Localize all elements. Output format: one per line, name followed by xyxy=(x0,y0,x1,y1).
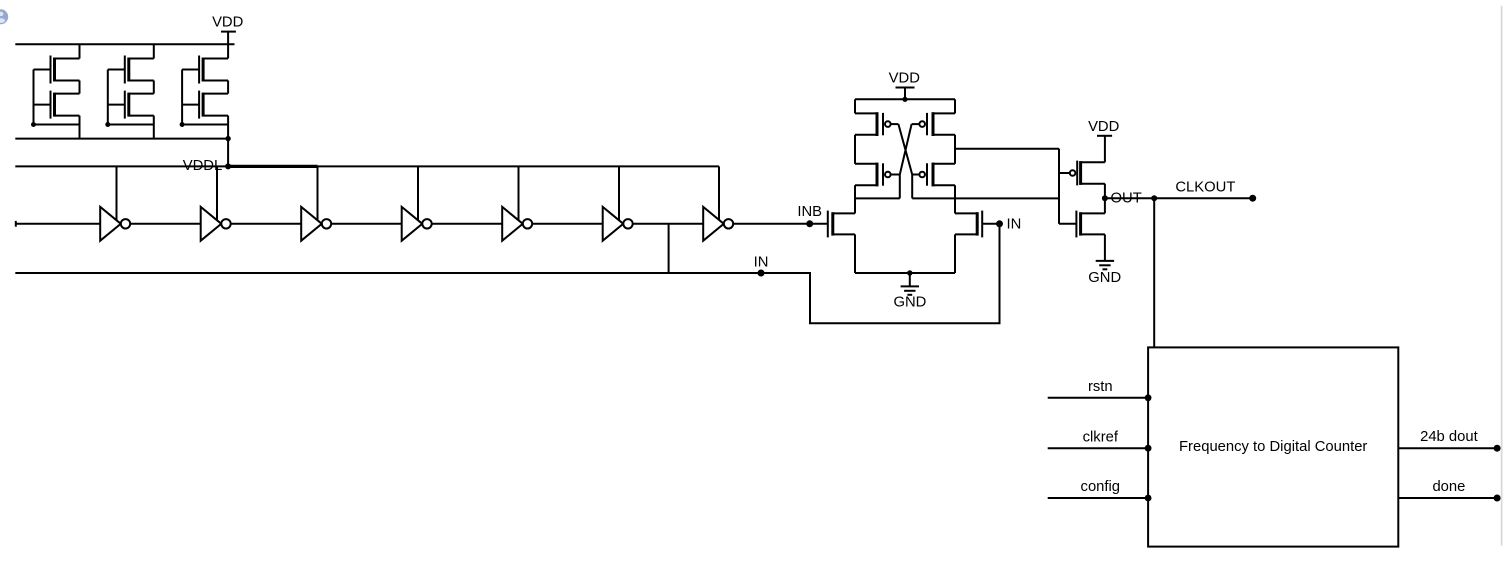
svg-text:VDD: VDD xyxy=(212,15,243,31)
svg-text:clkref: clkref xyxy=(1083,429,1119,445)
svg-text:rstn: rstn xyxy=(1088,379,1113,395)
svg-text:IN: IN xyxy=(1007,217,1022,233)
svg-text:VDD: VDD xyxy=(1088,119,1119,135)
svg-text:done: done xyxy=(1432,479,1465,495)
svg-text:IN: IN xyxy=(754,254,769,270)
svg-text:24b dout: 24b dout xyxy=(1420,429,1478,445)
svg-text:config: config xyxy=(1081,479,1121,495)
svg-text:INB: INB xyxy=(797,204,822,220)
svg-text:OUT: OUT xyxy=(1111,190,1142,206)
svg-text:GND: GND xyxy=(1088,270,1121,286)
svg-text:VDDL: VDDL xyxy=(183,158,222,174)
svg-text:GND: GND xyxy=(893,295,926,311)
svg-text:VDD: VDD xyxy=(889,70,920,86)
svg-text:Frequency to Digital Counter: Frequency to Digital Counter xyxy=(1179,439,1367,455)
svg-text:CLKOUT: CLKOUT xyxy=(1175,179,1235,195)
